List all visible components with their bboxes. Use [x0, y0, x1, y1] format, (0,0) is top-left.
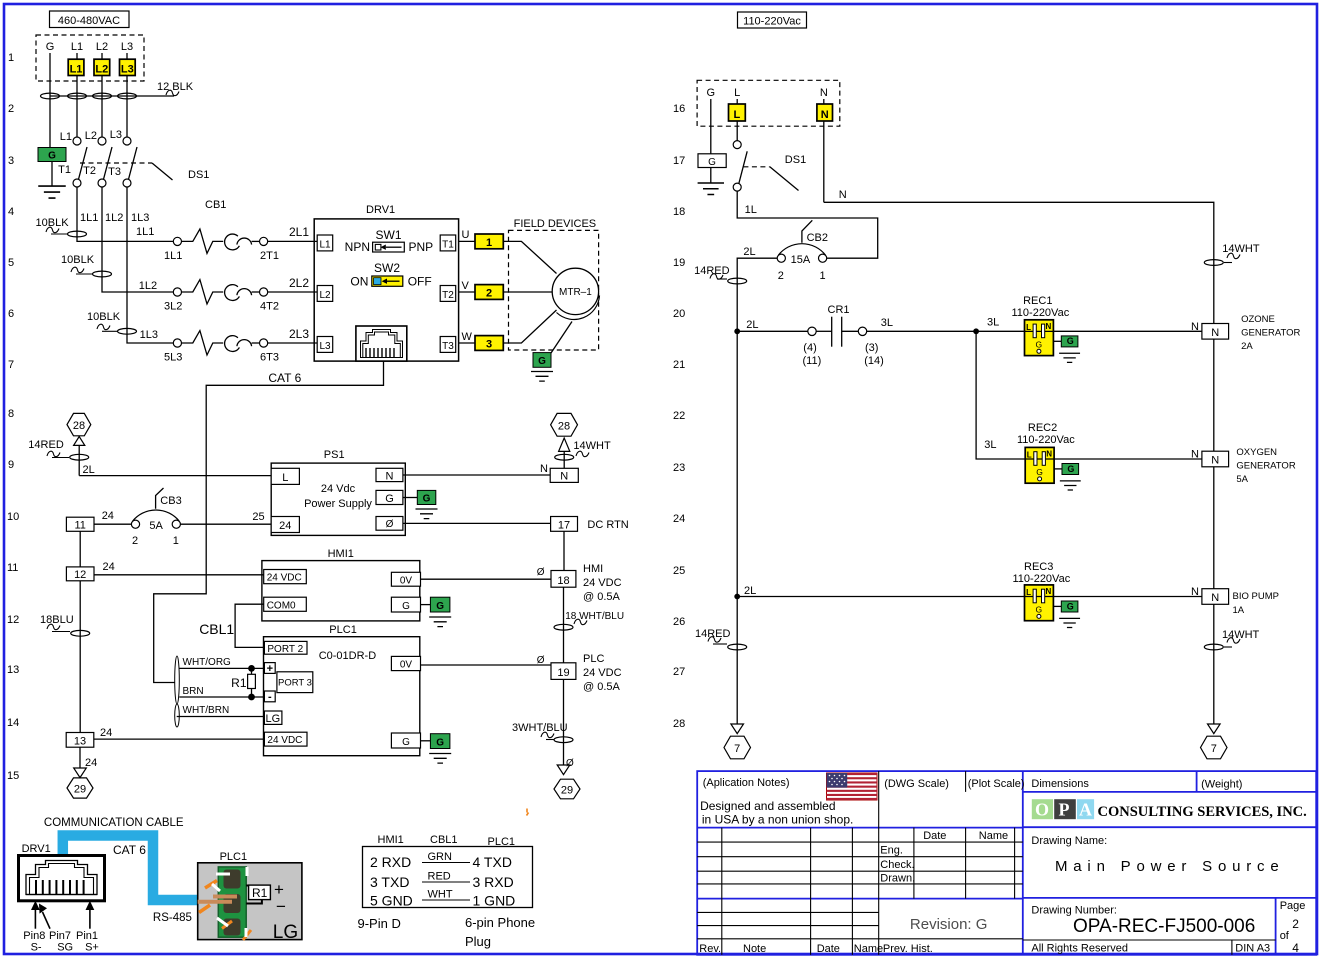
svg-text:28: 28 — [558, 420, 570, 432]
wire 2L to CR1 — [737, 330, 808, 332]
dashed source box right — [697, 80, 840, 126]
svg-text:Date: Date — [923, 830, 946, 842]
RJ45 jack DRV1 — [356, 326, 407, 361]
svg-text:L: L — [734, 109, 741, 121]
svg-text:2L: 2L — [744, 585, 756, 597]
svg-text:T1: T1 — [58, 164, 71, 176]
svg-text:+: + — [267, 663, 273, 675]
svg-text:18BLU: 18BLU — [40, 614, 74, 626]
wire 12 to HMI1 — [94, 574, 264, 576]
terminal minus — [264, 691, 275, 702]
terminal PORT 2 — [264, 641, 307, 654]
svg-text:G: G — [538, 356, 546, 367]
svg-text:Ø: Ø — [386, 519, 394, 530]
svg-text:PLC1: PLC1 — [329, 624, 357, 636]
wire REC2 to N — [1054, 458, 1202, 460]
svg-text:Eng.: Eng. — [880, 845, 903, 857]
wire to ground — [710, 168, 712, 184]
svg-text:1L1: 1L1 — [136, 226, 154, 238]
svg-text:2: 2 — [1292, 917, 1299, 931]
svg-text:4T2: 4T2 — [260, 301, 279, 313]
svg-text:COMMUNICATION CABLE: COMMUNICATION CABLE — [44, 817, 184, 829]
svg-text:(14): (14) — [864, 355, 884, 367]
fuse tag L3 — [120, 59, 136, 75]
receptacle REC1 — [1025, 320, 1081, 363]
disconnect DS1 pole L3 — [123, 137, 131, 145]
svg-text:LG: LG — [266, 713, 281, 725]
svg-text:24 VDC: 24 VDC — [267, 573, 302, 584]
svg-text:Prev. Hist.: Prev. Hist. — [883, 943, 933, 955]
fuse tag N — [817, 104, 833, 121]
breaker CB3 — [131, 520, 139, 528]
svg-text:N: N — [1211, 592, 1219, 604]
svg-text:N: N — [820, 87, 828, 99]
oval marker 18BLU — [71, 630, 90, 636]
wire 13 to PLC1 — [94, 738, 265, 740]
svg-text:Date: Date — [817, 943, 840, 955]
svg-text:12: 12 — [74, 569, 86, 581]
svg-text:1: 1 — [820, 270, 826, 282]
wire 1L1 vertical — [77, 187, 173, 241]
arrow down 2L — [731, 724, 744, 734]
svg-text:1L: 1L — [745, 204, 757, 216]
svg-text:19: 19 — [557, 667, 569, 679]
svg-text:5A: 5A — [1236, 474, 1248, 485]
svg-text:2L1: 2L1 — [289, 225, 309, 239]
svg-text:in USA by a non union shop.: in USA by a non union shop. — [702, 813, 853, 827]
svg-text:12: 12 — [7, 614, 19, 626]
wire G vertical — [49, 53, 51, 148]
motor shadow arc — [557, 296, 600, 320]
svg-text:L1: L1 — [70, 64, 83, 76]
svg-text:Name: Name — [979, 830, 1008, 842]
svg-text:10BLK: 10BLK — [61, 254, 95, 266]
svg-text:N: N — [1211, 455, 1219, 467]
fuse tag L1 — [68, 59, 84, 75]
terminal L2 — [317, 286, 333, 302]
wire 12 to 13 — [79, 581, 81, 733]
connector hexagon 28 left — [67, 413, 91, 435]
svg-text:GENERATOR: GENERATOR — [1241, 328, 1300, 339]
svg-text:DC RTN: DC RTN — [587, 519, 628, 531]
svg-text:3WHT/BLU: 3WHT/BLU — [512, 722, 568, 734]
svg-text:3: 3 — [486, 338, 492, 350]
terminal T2 — [440, 286, 456, 302]
junction dot — [248, 665, 255, 672]
svg-text:NPN: NPN — [345, 240, 370, 254]
ground tag G green — [38, 148, 66, 162]
svg-text:3L2: 3L2 — [164, 301, 182, 313]
svg-text:Drawing Name:: Drawing Name: — [1031, 835, 1107, 847]
wire 2 to motor — [503, 291, 552, 293]
wire PLC 0V to 19 — [421, 664, 552, 666]
wire N — [823, 99, 825, 202]
wire T1 out — [459, 240, 475, 242]
svg-text:1: 1 — [8, 52, 14, 64]
terminal COM0 — [264, 597, 307, 611]
wire 1 to motor — [503, 241, 556, 273]
wire 2L rail mid — [736, 331, 738, 596]
svg-text:DRV1: DRV1 — [366, 204, 395, 216]
svg-text:O: O — [1035, 800, 1049, 820]
terminal 11 — [66, 517, 94, 531]
wire N rail lower — [1213, 467, 1215, 589]
svg-text:G: G — [707, 87, 716, 99]
svg-text:SW1: SW1 — [375, 228, 401, 242]
svg-text:Revision: G: Revision: G — [910, 916, 988, 933]
svg-text:WHT/BRN: WHT/BRN — [183, 705, 230, 716]
wire hex28 right — [563, 452, 565, 469]
svg-text:3 RXD: 3 RXD — [473, 874, 514, 890]
terminal plus — [264, 663, 275, 674]
oval marker L1 — [68, 93, 87, 99]
svg-text:1: 1 — [486, 237, 492, 249]
svg-text:15A: 15A — [791, 254, 811, 266]
svg-text:S-: S- — [31, 942, 42, 954]
svg-text:REC1: REC1 — [1023, 295, 1052, 307]
wire COM0 to PORT2 — [235, 604, 264, 647]
connector hexagon 7 left — [724, 736, 751, 759]
arrow Pin8 — [34, 908, 36, 929]
wire 1L to CB2 — [737, 191, 878, 258]
svg-text:G: G — [48, 151, 56, 162]
svg-text:OPA-REC-FJ500-006: OPA-REC-FJ500-006 — [1073, 916, 1255, 937]
wire CAT6 route — [154, 361, 384, 682]
wire 11 to CB3 — [94, 523, 131, 525]
wire REC1 to N — [1053, 330, 1202, 332]
svg-text:(3): (3) — [865, 342, 878, 354]
svg-text:N: N — [386, 470, 394, 482]
svg-text:CBL1: CBL1 — [199, 621, 234, 637]
oval marker L3 — [118, 93, 137, 99]
svg-text:P: P — [1059, 800, 1070, 820]
title grid black lines — [697, 771, 1275, 955]
ground tag PLC1 — [421, 740, 431, 742]
wire 2L to PS1 — [79, 475, 271, 477]
svg-text:L3: L3 — [319, 341, 331, 352]
svg-text:L2: L2 — [96, 41, 108, 53]
svg-text:15: 15 — [7, 770, 19, 782]
fuse tag L — [729, 104, 746, 121]
DS1 linkage dashed — [80, 162, 152, 164]
svg-text:2 RXD: 2 RXD — [370, 854, 411, 870]
terminal 0V — [391, 572, 420, 586]
svg-text:2L3: 2L3 — [289, 327, 309, 341]
svg-text:L1: L1 — [71, 41, 83, 53]
svg-text:G: G — [385, 493, 394, 505]
label box 110-220Vac — [738, 12, 807, 28]
svg-text:18: 18 — [557, 575, 569, 587]
svg-text:N: N — [1211, 327, 1219, 339]
wire HMI 0V to 18 — [421, 578, 552, 580]
svg-text:FIELD DEVICES: FIELD DEVICES — [514, 218, 597, 230]
svg-text:PLC: PLC — [583, 653, 604, 665]
DS1 leader — [770, 167, 799, 191]
arrow down N — [1208, 724, 1221, 734]
breaker CB1 pole 2 — [173, 280, 267, 304]
svg-text:L3: L3 — [121, 41, 133, 53]
svg-text:(Plot Scale): (Plot Scale) — [968, 778, 1025, 790]
small orange tick — [527, 809, 529, 816]
svg-text:2: 2 — [486, 287, 492, 299]
svg-text:5L3: 5L3 — [164, 352, 182, 364]
wire G — [710, 99, 712, 154]
wire hex28 to 2L — [78, 445, 80, 475]
svg-text:110-220Vac: 110-220Vac — [1012, 307, 1070, 319]
svg-text:All Rights Reserved: All Rights Reserved — [1031, 943, 1128, 955]
terminal 24 VDC PLC — [264, 732, 307, 746]
cable CAT6 blue — [63, 836, 198, 901]
svg-text:G: G — [708, 157, 716, 168]
wire CB1 to DRV1 L3 — [268, 342, 318, 344]
DS1 leader — [152, 163, 173, 180]
terminal N box row20 — [1202, 324, 1229, 340]
wire BRN — [179, 696, 264, 698]
svg-text:14WHT: 14WHT — [573, 440, 611, 452]
svg-text:GENERATOR: GENERATOR — [1236, 461, 1295, 472]
RJ45 jack detail — [19, 856, 105, 901]
wire CB3 to PS1 24 — [180, 523, 271, 525]
wire N rail top — [824, 202, 1214, 323]
terminal 24 — [271, 517, 299, 533]
svg-text:N: N — [1191, 449, 1199, 461]
ground tag G field — [533, 353, 551, 368]
dashed field devices box — [509, 230, 599, 350]
svg-text:Rev.: Rev. — [699, 943, 721, 955]
svg-text:5: 5 — [8, 257, 14, 269]
svg-text:1L2: 1L2 — [139, 280, 157, 292]
svg-text:T2: T2 — [442, 290, 454, 301]
terminal 17 — [551, 517, 578, 532]
svg-text:CBL1: CBL1 — [430, 834, 458, 846]
svg-text:U: U — [462, 229, 470, 241]
svg-text:2A: 2A — [1241, 341, 1253, 352]
wire 11 to 12 — [79, 531, 81, 567]
wire 18 to 19 — [563, 587, 565, 663]
arrow down right — [557, 765, 570, 775]
wire CB2 out 2L — [737, 258, 777, 331]
svg-text:17: 17 — [673, 155, 685, 167]
svg-text:CAT 6: CAT 6 — [268, 371, 301, 385]
oval marker G — [41, 93, 60, 99]
svg-text:SG: SG — [57, 942, 73, 954]
svg-text:14WHT: 14WHT — [1222, 629, 1260, 641]
svg-text:18: 18 — [673, 206, 685, 218]
svg-text:DRV1: DRV1 — [22, 843, 51, 855]
arrow down left — [74, 768, 87, 778]
svg-text:N: N — [821, 109, 829, 121]
svg-text:21: 21 — [673, 359, 685, 371]
svg-text:CONSULTING SERVICES, INC.: CONSULTING SERVICES, INC. — [1098, 804, 1307, 820]
svg-text:3L: 3L — [881, 317, 893, 329]
svg-text:N: N — [839, 189, 847, 201]
wire 13 down — [79, 747, 81, 768]
tag 12 BLK — [166, 90, 179, 96]
junction dot — [248, 694, 255, 701]
wire L — [736, 99, 738, 141]
svg-text:OFF: OFF — [408, 275, 432, 289]
svg-text:4 TXD: 4 TXD — [473, 854, 512, 870]
disconnect DS1 right — [733, 141, 741, 149]
terminal T1 — [440, 235, 456, 251]
wire tag 2 — [475, 285, 503, 300]
wire WHT/BRN — [177, 716, 265, 718]
terminal L3 — [317, 337, 333, 353]
svg-text:Page: Page — [1280, 900, 1306, 912]
svg-text:−: − — [276, 897, 286, 916]
svg-text:1L3: 1L3 — [131, 212, 149, 224]
svg-text:29: 29 — [561, 785, 573, 797]
svg-text:L3: L3 — [121, 64, 134, 76]
svg-text:5 GND: 5 GND — [370, 893, 413, 909]
oval marker 14RED — [70, 454, 89, 460]
breaker CB2 — [777, 254, 785, 262]
svg-text:7: 7 — [8, 359, 14, 371]
svg-text:(DWG Scale): (DWG Scale) — [884, 778, 949, 790]
svg-text:L2: L2 — [319, 290, 331, 301]
terminal N box row25 — [1202, 589, 1229, 605]
oval marker 14WHT — [555, 454, 574, 460]
svg-text:110-220Vac: 110-220Vac — [1017, 434, 1075, 446]
svg-text:1L1: 1L1 — [164, 250, 182, 262]
arrow Pin7 — [43, 912, 51, 929]
svg-text:5A: 5A — [149, 520, 163, 532]
svg-text:29: 29 — [74, 784, 86, 796]
svg-text:Main Power Source: Main Power Source — [1055, 858, 1285, 875]
svg-text:PNP: PNP — [409, 240, 434, 254]
svg-text:-: - — [268, 691, 272, 703]
ground symbol — [38, 186, 66, 198]
svg-text:14RED: 14RED — [695, 628, 731, 640]
row numbers right 16-28 — [673, 103, 685, 730]
svg-text:3: 3 — [8, 155, 14, 167]
terminal 19 — [551, 663, 576, 680]
wire 2L to bottom — [736, 597, 738, 725]
svg-text:(Aplication Notes): (Aplication Notes) — [703, 777, 790, 789]
svg-text:GRN: GRN — [428, 851, 453, 863]
terminal L — [271, 468, 299, 484]
terminal 24 VDC — [264, 570, 307, 584]
HMI1 box — [262, 561, 420, 621]
junction dot 2L row20 — [734, 328, 740, 334]
svg-text:N: N — [1191, 586, 1199, 598]
wire 1L3 vertical — [127, 187, 173, 343]
svg-text:10: 10 — [7, 511, 19, 523]
svg-text:REC3: REC3 — [1024, 561, 1053, 573]
svg-text:8: 8 — [8, 408, 14, 420]
svg-text:13: 13 — [74, 735, 86, 747]
terminal T3 — [440, 337, 456, 353]
svg-text:1L1: 1L1 — [80, 212, 98, 224]
svg-text:Pin7: Pin7 — [49, 930, 71, 942]
svg-text:1L2: 1L2 — [105, 212, 123, 224]
svg-text:C0-01DR-D: C0-01DR-D — [319, 650, 377, 662]
svg-text:28: 28 — [673, 718, 685, 730]
svg-text:WHT: WHT — [428, 889, 453, 901]
wire CB1 to DRV1 L2 — [268, 291, 318, 293]
terminal 12 — [66, 567, 94, 581]
svg-text:24: 24 — [279, 520, 291, 532]
svg-text:PORT 3: PORT 3 — [278, 678, 312, 689]
svg-text:HMI1: HMI1 — [378, 834, 404, 846]
ground symbol — [698, 183, 724, 195]
svg-text:HMI: HMI — [583, 563, 603, 575]
svg-text:OZONE: OZONE — [1241, 314, 1275, 325]
svg-text:PORT 2: PORT 2 — [267, 644, 303, 655]
cable bracket lens lower — [175, 704, 180, 727]
wire 3 to motor — [503, 310, 556, 343]
disconnect DS1 pole L2 — [98, 137, 106, 145]
wire N rail mid — [1213, 339, 1215, 451]
terminal N — [376, 468, 403, 481]
svg-text:24: 24 — [673, 513, 685, 525]
svg-text:N: N — [560, 471, 568, 483]
svg-text:S+: S+ — [85, 942, 99, 954]
svg-text:Power Supply: Power Supply — [304, 498, 372, 510]
svg-text:N: N — [1191, 321, 1199, 333]
terminal LG — [264, 711, 282, 724]
svg-text:13: 13 — [7, 664, 19, 676]
svg-text:Dimensions: Dimensions — [1031, 778, 1089, 790]
svg-text:REC2: REC2 — [1028, 422, 1057, 434]
svg-text:7: 7 — [734, 743, 740, 755]
ground tag HMI1 — [421, 604, 431, 606]
ground tag PS1 — [403, 497, 417, 499]
breaker CB1 pole 1 — [173, 229, 267, 253]
svg-text:11: 11 — [7, 562, 18, 574]
wire 1L2 vertical — [102, 187, 173, 292]
receptacle REC2 — [1025, 447, 1081, 490]
svg-text:9: 9 — [8, 459, 14, 471]
wire N to bottom — [1213, 604, 1215, 724]
svg-text:24 Vdc: 24 Vdc — [321, 483, 356, 495]
svg-text:A: A — [1079, 800, 1092, 820]
wire tag 1 — [475, 234, 503, 249]
relay contact CR1 — [808, 327, 816, 335]
dashed source box — [36, 35, 144, 81]
svg-text:110-220Vac: 110-220Vac — [1013, 573, 1071, 585]
svg-text:CR1: CR1 — [828, 304, 850, 316]
US flag — [827, 773, 878, 800]
svg-text:110-220Vac: 110-220Vac — [743, 16, 801, 28]
svg-text:2L: 2L — [83, 464, 95, 476]
svg-text:Name: Name — [854, 943, 883, 955]
svg-text:10BLK: 10BLK — [87, 311, 121, 323]
svg-text:14: 14 — [7, 717, 19, 729]
svg-text:4: 4 — [1292, 941, 1299, 955]
svg-text:2L2: 2L2 — [289, 276, 309, 290]
svg-text:11: 11 — [74, 520, 85, 532]
wire 17 to 18 — [563, 531, 565, 570]
cable 12 BLK marker line — [50, 95, 174, 97]
svg-text:1 GND: 1 GND — [473, 893, 516, 909]
power supply PS1 box — [271, 463, 405, 535]
row numbers left 1-15 — [7, 52, 19, 782]
wire 3L drop — [976, 331, 1025, 459]
svg-text:12 BLK: 12 BLK — [157, 81, 194, 93]
svg-text:(Weight): (Weight) — [1201, 779, 1242, 791]
svg-text:DIN A3: DIN A3 — [1235, 943, 1270, 955]
svg-text:Plug: Plug — [465, 934, 491, 949]
svg-text:CB1: CB1 — [205, 199, 226, 211]
svg-text:(11): (11) — [803, 355, 822, 367]
PLC1 box — [264, 637, 420, 756]
cable bracket lens upper — [175, 656, 180, 704]
arrow Pin1 — [89, 908, 91, 929]
svg-text:PLC1: PLC1 — [220, 851, 248, 863]
wire CR1 to REC1 — [867, 330, 1025, 332]
svg-text:@ 0.5A: @ 0.5A — [583, 681, 621, 693]
